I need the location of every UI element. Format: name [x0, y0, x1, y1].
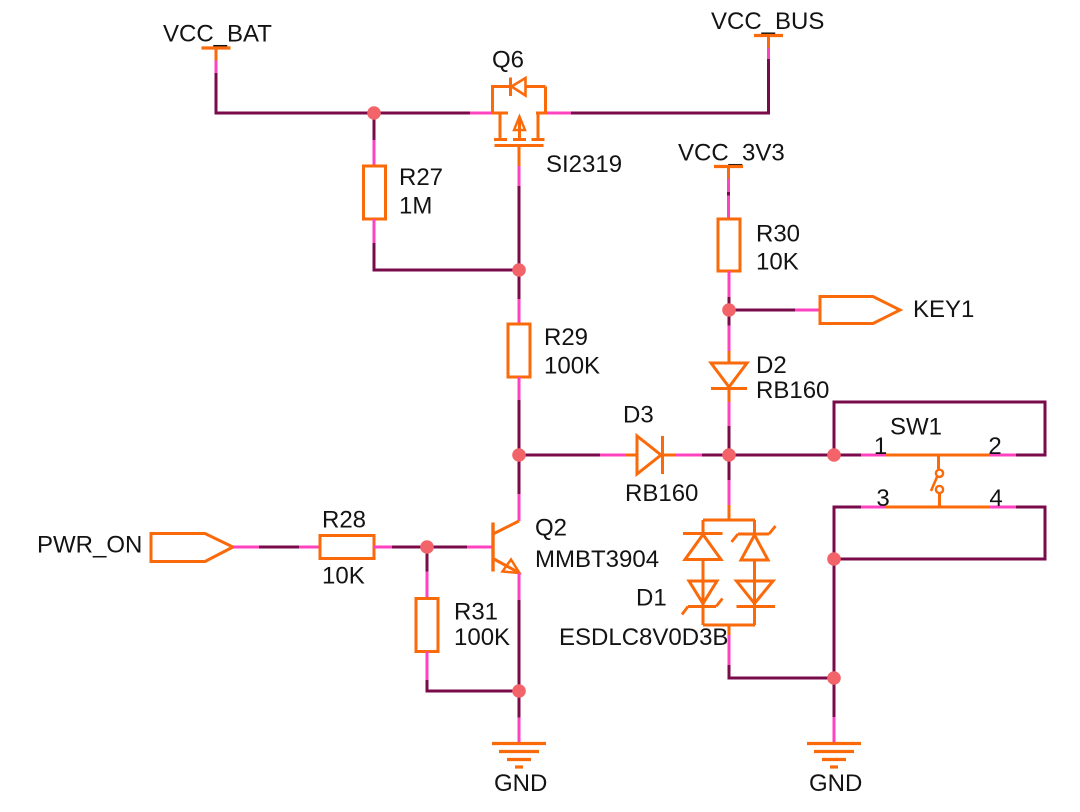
svg-text:4: 4 [989, 485, 1002, 512]
svg-text:R31: R31 [454, 599, 498, 626]
svg-text:GND: GND [494, 770, 547, 797]
svg-text:Q6: Q6 [492, 47, 524, 74]
svg-text:GND: GND [809, 770, 862, 797]
svg-text:1M: 1M [399, 193, 432, 220]
svg-text:SI2319: SI2319 [546, 151, 622, 178]
svg-text:D1: D1 [636, 585, 667, 612]
svg-text:R28: R28 [322, 507, 366, 534]
svg-text:100K: 100K [454, 624, 510, 651]
svg-text:SW1: SW1 [890, 414, 942, 441]
svg-text:RB160: RB160 [625, 480, 698, 507]
svg-text:PWR_ON: PWR_ON [37, 532, 142, 559]
svg-text:VCC_BAT: VCC_BAT [163, 21, 272, 48]
svg-text:D3: D3 [623, 402, 654, 429]
svg-text:R30: R30 [756, 221, 800, 248]
svg-text:3: 3 [876, 485, 889, 512]
svg-text:KEY1: KEY1 [913, 296, 974, 323]
svg-text:10K: 10K [322, 563, 365, 590]
svg-text:VCC_BUS: VCC_BUS [711, 8, 824, 35]
svg-text:R27: R27 [399, 164, 443, 191]
svg-text:2: 2 [988, 433, 1001, 460]
svg-text:D2: D2 [756, 352, 787, 379]
svg-text:Q2: Q2 [535, 515, 567, 542]
svg-text:ESDLC8V0D3B: ESDLC8V0D3B [559, 624, 728, 651]
svg-text:1: 1 [874, 433, 887, 460]
svg-text:VCC_3V3: VCC_3V3 [678, 140, 785, 167]
svg-text:RB160: RB160 [756, 377, 829, 404]
svg-text:100K: 100K [544, 353, 600, 380]
svg-text:MMBT3904: MMBT3904 [535, 546, 659, 573]
svg-text:10K: 10K [756, 249, 799, 276]
svg-text:R29: R29 [544, 324, 588, 351]
